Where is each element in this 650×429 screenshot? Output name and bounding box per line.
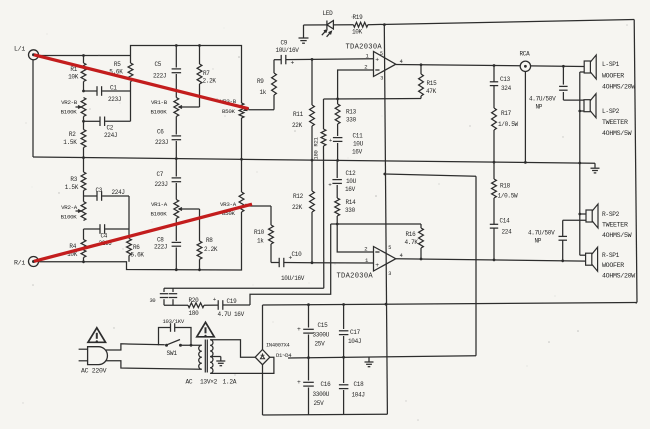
svg-text:223J: 223J	[108, 96, 121, 103]
svg-text:NP: NP	[535, 238, 542, 245]
resistor R4	[81, 229, 86, 262]
label RCA	[520, 51, 531, 58]
svg-text:+: +	[297, 379, 301, 386]
capacitor zobel A	[160, 288, 168, 305]
node R8 bottom	[198, 268, 201, 271]
svg-text:180: 180	[189, 310, 200, 317]
wire +V rail	[263, 303, 638, 306]
label U2 TDA2030A	[337, 273, 374, 281]
node pin2 upper	[336, 98, 339, 101]
svg-text:25V: 25V	[314, 400, 325, 407]
svg-text:104J: 104J	[348, 338, 361, 345]
svg-text:+: +	[375, 56, 379, 63]
label C10	[281, 251, 305, 282]
label bridge	[266, 343, 292, 359]
node R return	[578, 213, 581, 216]
svg-text:1k: 1k	[260, 89, 267, 96]
svg-text:R17: R17	[501, 110, 512, 117]
wire RCA ground	[524, 72, 526, 163]
resistor R19	[353, 22, 367, 27]
svg-text:LED: LED	[323, 10, 334, 17]
svg-text:5: 5	[380, 51, 383, 57]
plug AC	[79, 347, 108, 365]
label 4.7U upper	[529, 96, 556, 111]
label AC 220V	[81, 367, 107, 374]
node C1 left	[82, 90, 85, 93]
wire VR2B to C2	[83, 117, 85, 122]
warning triangle xfmr	[197, 322, 214, 337]
wire right section vertical	[475, 176, 477, 356]
svg-text:AC 220V: AC 220V	[81, 367, 107, 374]
svg-text:R5: R5	[114, 61, 121, 68]
svg-text:C8: C8	[157, 237, 164, 244]
wire feedback row upper	[324, 98, 422, 101]
label C9	[276, 40, 300, 55]
svg-text:D1~D4: D1~D4	[276, 352, 292, 359]
capacitor C3	[84, 191, 130, 201]
label VR3-B	[220, 98, 237, 115]
svg-text:WOOFER: WOOFER	[602, 73, 624, 80]
label C13	[500, 76, 512, 92]
svg-text:22K: 22K	[292, 204, 303, 211]
label R15	[426, 80, 437, 95]
svg-text:IN4007X4: IN4007X4	[266, 343, 290, 349]
svg-text:4.7U/50V: 4.7U/50V	[528, 230, 555, 237]
svg-text:R11: R11	[293, 111, 304, 118]
svg-text:1.5K: 1.5K	[65, 184, 79, 191]
wire pin3 branch row	[385, 174, 476, 176]
label 4.7U lower	[528, 230, 555, 245]
node L input to R1	[82, 54, 85, 57]
svg-text:2.2K: 2.2K	[204, 246, 218, 253]
label R2	[63, 131, 77, 146]
svg-text:4OHMS/20W: 4OHMS/20W	[602, 84, 635, 91]
label R input	[14, 260, 25, 267]
svg-text:+: +	[297, 326, 301, 333]
label R9	[257, 78, 267, 96]
label LED	[323, 10, 334, 17]
node +V amp line	[385, 303, 388, 306]
label R17	[498, 110, 519, 128]
svg-text:C5: C5	[155, 61, 162, 68]
input jack R	[29, 257, 39, 267]
svg-text:224J: 224J	[112, 189, 125, 196]
svg-text:C18: C18	[354, 381, 365, 388]
label L-SP1	[602, 61, 635, 91]
node 4.7U top	[562, 65, 565, 68]
svg-text:2: 2	[364, 64, 367, 71]
resistor R3	[81, 158, 86, 196]
resistor R17	[492, 108, 497, 162]
jack RCA	[520, 61, 530, 71]
resistor R8	[185, 209, 202, 270]
label R14	[345, 199, 356, 214]
svg-text:330: 330	[345, 207, 356, 214]
ground 0V	[365, 357, 374, 367]
label C2	[104, 125, 117, 140]
svg-text:2: 2	[364, 246, 367, 253]
svg-text:1/0.5W: 1/0.5W	[498, 193, 519, 200]
node upper output R15	[420, 63, 423, 66]
svg-text:4.7U/50V: 4.7U/50V	[529, 96, 556, 103]
wire L input row	[39, 55, 131, 57]
svg-text:22K: 22K	[292, 122, 303, 129]
svg-text:C12: C12	[346, 170, 357, 177]
wire secondary bottom	[210, 357, 274, 373]
svg-text:10U: 10U	[353, 141, 364, 148]
svg-text:5.6K: 5.6K	[131, 252, 145, 259]
capacitor C2	[84, 117, 131, 127]
svg-text:16V: 16V	[352, 149, 363, 156]
switch SW1	[165, 340, 182, 347]
capacitor C5	[172, 46, 182, 98]
svg-text:R8: R8	[206, 237, 213, 244]
svg-text:B100K: B100K	[61, 214, 78, 221]
label C6	[155, 129, 168, 147]
svg-text:2.2K: 2.2K	[203, 78, 217, 85]
label VR2-A	[61, 204, 78, 221]
resistor R10	[269, 206, 274, 263]
label C5	[153, 61, 166, 80]
svg-text:TDA2030A: TDA2030A	[337, 273, 374, 281]
svg-text:R-SP1: R-SP1	[602, 252, 620, 259]
svg-text:R9: R9	[257, 78, 264, 85]
resistor R5	[128, 56, 133, 122]
label VR3-A	[220, 201, 237, 217]
wire R input row	[39, 212, 242, 270]
svg-text:AC: AC	[186, 379, 193, 386]
resistor R20	[188, 303, 204, 308]
svg-text:R6: R6	[133, 244, 140, 251]
wire switch to xfmr	[182, 344, 202, 346]
svg-text:13V×2: 13V×2	[200, 379, 218, 386]
label R1	[68, 66, 79, 81]
capacitor C14	[490, 198, 498, 260]
svg-text:16V: 16V	[345, 186, 356, 193]
label VR2-B	[61, 99, 78, 116]
pot VR2-A	[76, 196, 86, 221]
label R10	[254, 229, 265, 245]
capacitor zobel B	[169, 288, 177, 305]
label C16	[313, 381, 332, 407]
svg-text:R2: R2	[69, 131, 76, 138]
capacitor C1	[84, 86, 131, 96]
capacitor C21 4.7U lower	[559, 220, 587, 260]
svg-text:5: 5	[388, 245, 391, 251]
capacitor C10	[271, 255, 312, 268]
svg-text:222J: 222J	[153, 73, 166, 80]
wire secondary top	[210, 340, 255, 357]
node C14 bottom	[493, 259, 496, 262]
wire pin2 upper	[338, 70, 374, 99]
label R7	[203, 70, 217, 85]
svg-text:1/0.5W: 1/0.5W	[498, 121, 519, 128]
wire pin1 lower	[312, 262, 374, 264]
svg-text:10U/16V: 10U/16V	[276, 47, 300, 54]
svg-text:4.7U 16V: 4.7U 16V	[218, 311, 245, 318]
capacitor C9	[274, 55, 312, 67]
wire zobel upper row	[164, 287, 324, 289]
capacitor C19	[204, 296, 250, 310]
wire upper box top	[131, 46, 242, 104]
led ground	[299, 25, 309, 43]
label R-SP2	[602, 211, 632, 239]
wire top supply row	[304, 20, 635, 26]
svg-text:VR1-B: VR1-B	[151, 99, 168, 106]
label R-SP1	[602, 252, 635, 280]
node C2 left	[82, 120, 85, 123]
node C5 top	[175, 44, 178, 47]
wire pin1 upper	[312, 58, 374, 61]
resistor R14	[335, 198, 340, 224]
label R12	[292, 193, 304, 211]
label C11	[352, 133, 364, 156]
label VR1-B	[151, 99, 168, 116]
warning triangle left	[88, 328, 106, 343]
wire lower output	[396, 259, 586, 261]
svg-text:B100K: B100K	[151, 109, 168, 116]
label R21	[313, 136, 320, 159]
svg-text:4OHMS/20W: 4OHMS/20W	[602, 273, 635, 280]
svg-text:C16: C16	[321, 381, 332, 388]
label R4	[67, 243, 78, 258]
wire right border	[634, 20, 637, 303]
wire plug bottom	[106, 361, 202, 370]
svg-text:L-SP1: L-SP1	[602, 61, 620, 68]
wire VR3-B wiper row	[249, 109, 275, 111]
label C18	[352, 381, 365, 399]
pot VR1-A	[174, 200, 185, 219]
capacitor C13	[490, 66, 498, 109]
led LED	[322, 21, 334, 37]
svg-text:3: 3	[380, 75, 383, 81]
svg-text:10U: 10U	[346, 178, 357, 185]
node pin1 row lower	[311, 261, 314, 264]
label xfmr ratings	[186, 379, 237, 386]
label C3	[96, 187, 125, 196]
svg-text:NP: NP	[536, 104, 543, 111]
node 0V C15	[307, 356, 310, 359]
svg-text:4.7K: 4.7K	[405, 239, 419, 246]
svg-text:B100K: B100K	[61, 109, 78, 116]
resistor R21	[321, 99, 326, 288]
label C15	[313, 322, 330, 348]
node R7 top	[198, 44, 201, 47]
svg-text:47K: 47K	[426, 88, 437, 95]
label R20	[189, 297, 200, 317]
op-amp U2	[364, 245, 403, 277]
svg-text:R18: R18	[500, 183, 511, 190]
resistor R18	[492, 162, 497, 198]
svg-text:VR2-B: VR2-B	[61, 99, 78, 106]
svg-text:B100K: B100K	[151, 211, 168, 218]
node 0V C17	[342, 356, 345, 359]
svg-text:WOOFER: WOOFER	[602, 262, 624, 269]
svg-text:SW1: SW1	[167, 350, 178, 357]
node VR3 mid rail	[240, 158, 243, 161]
svg-text:C15: C15	[318, 322, 329, 329]
label C7	[155, 171, 168, 188]
svg-text:TWEETER: TWEETER	[602, 119, 628, 126]
red annotation line L	[34, 55, 249, 109]
label L input	[14, 46, 25, 53]
label R16	[405, 231, 419, 246]
label R3	[65, 176, 79, 191]
resistor R15	[419, 65, 424, 99]
capacitor C7	[172, 159, 182, 200]
svg-text:C11: C11	[353, 133, 364, 140]
capacitor C6	[172, 117, 182, 159]
svg-text:C10: C10	[292, 251, 303, 258]
node R19 right	[383, 23, 386, 26]
svg-text:224: 224	[502, 229, 513, 236]
wire bridge minus	[262, 365, 264, 415]
label C4	[99, 233, 112, 248]
bridge D1-D4	[255, 350, 270, 365]
ground center tap	[216, 361, 225, 366]
label C1	[108, 85, 121, 104]
wire zobel lower row	[164, 304, 188, 306]
svg-text:R13: R13	[346, 109, 357, 116]
wire center tap	[210, 357, 221, 361]
node R11 bottom	[311, 159, 314, 162]
speaker L-SP1	[584, 55, 596, 79]
svg-text:R14: R14	[346, 199, 357, 206]
svg-text:VR2-A: VR2-A	[61, 204, 78, 211]
label 103/1KV	[163, 318, 185, 325]
svg-text:L/i: L/i	[14, 46, 25, 53]
label 30	[150, 298, 156, 304]
wire 0V line	[288, 356, 476, 358]
wire bridge plus	[262, 305, 264, 350]
svg-text:C14: C14	[500, 218, 511, 225]
label R19	[352, 14, 363, 36]
svg-text:103/1KV: 103/1KV	[163, 318, 185, 325]
wire upper output	[396, 65, 584, 67]
speaker R-SP2	[586, 204, 598, 228]
resistor R12	[310, 160, 315, 263]
wire main power vertical	[384, 25, 387, 415]
pot VR1-B	[174, 98, 185, 117]
wire L speaker return	[580, 72, 584, 255]
transformer T1	[199, 340, 213, 374]
resistor R7	[185, 46, 202, 108]
label R18	[498, 183, 519, 200]
pot VR2-B	[76, 98, 86, 117]
capacitor C16	[297, 358, 314, 415]
svg-text:R-SP2: R-SP2	[602, 211, 620, 218]
capacitor C12	[328, 160, 342, 198]
svg-text:C3: C3	[96, 187, 103, 194]
wire VR3-A wiper row	[249, 205, 272, 207]
op-amp U1	[364, 51, 403, 81]
node C13 top	[493, 64, 496, 67]
svg-text:R16: R16	[406, 231, 417, 238]
svg-text:25V: 25V	[315, 341, 326, 348]
svg-text:R3: R3	[70, 176, 77, 183]
label R6	[131, 244, 145, 259]
node pin2 lower	[336, 223, 339, 226]
svg-text:224J: 224J	[104, 132, 117, 139]
node R2 bottom	[82, 156, 85, 159]
svg-text:C7: C7	[157, 171, 164, 178]
svg-text:VR3-A: VR3-A	[220, 201, 237, 208]
svg-text:C4: C4	[101, 233, 108, 240]
label C17	[348, 329, 361, 345]
capacitor C8	[172, 219, 182, 270]
svg-text:TDA2030A: TDA2030A	[346, 44, 383, 52]
svg-text:L-SP2: L-SP2	[602, 108, 620, 115]
red annotation line R	[34, 204, 252, 261]
node cap branch	[190, 344, 193, 347]
svg-text:10K: 10K	[68, 74, 79, 81]
pot VR3-A	[239, 159, 249, 212]
label R11	[292, 111, 304, 129]
svg-text:C6: C6	[157, 129, 164, 136]
svg-text:330: 330	[346, 117, 357, 124]
label U1 TDA2030A	[346, 44, 383, 52]
speaker R-SP1	[586, 247, 598, 271]
node RCA bottom	[524, 161, 527, 164]
svg-text:C19: C19	[227, 298, 238, 305]
svg-text:R21: R21	[313, 136, 320, 146]
svg-text:+: +	[375, 262, 379, 269]
label R8	[204, 237, 218, 253]
svg-text:+: +	[291, 60, 295, 67]
resistor R6	[127, 196, 132, 262]
svg-text:30: 30	[150, 298, 156, 304]
resistor R11	[310, 59, 315, 160]
svg-text:223J: 223J	[155, 139, 168, 146]
node R17 bottom	[493, 161, 496, 164]
node +V C15	[307, 303, 310, 306]
capacitor C18	[339, 357, 349, 414]
svg-text:223J: 223J	[155, 181, 168, 188]
svg-text:C17: C17	[350, 329, 361, 336]
svg-text:TWEETER: TWEETER	[602, 222, 628, 229]
node +V C17	[342, 303, 345, 306]
wire R speaker return	[580, 214, 586, 255]
wire pin2 lower	[337, 224, 373, 252]
speaker L-SP2	[584, 94, 596, 118]
svg-text:4OHMS/5W: 4OHMS/5W	[602, 130, 632, 137]
label C8	[154, 237, 167, 251]
input jack L	[29, 50, 39, 60]
label C14	[500, 218, 513, 236]
node C8 bottom	[175, 268, 178, 271]
svg-text:R19: R19	[353, 14, 364, 21]
svg-text:R15: R15	[427, 80, 438, 87]
svg-text:3300U: 3300U	[313, 332, 330, 339]
label C12	[345, 170, 357, 193]
capacitor C4	[84, 224, 130, 234]
capacitor C20 4.7U upper	[559, 66, 584, 100]
wire C19 to lower fb	[250, 224, 331, 305]
capacitor 103/1KV	[159, 323, 192, 345]
label R13	[346, 109, 357, 124]
capacitor C15	[297, 305, 314, 358]
resistor R2	[81, 121, 86, 157]
svg-text:VR1-A: VR1-A	[151, 201, 168, 208]
svg-text:324: 324	[501, 85, 512, 92]
svg-text:C1: C1	[110, 85, 117, 92]
ground speaker upper	[591, 163, 600, 173]
resistor R1	[81, 56, 86, 92]
capacitor C17	[339, 305, 349, 358]
resistor R13	[335, 99, 340, 124]
label VR1-A	[151, 201, 168, 218]
node C6 bottom	[175, 157, 178, 160]
